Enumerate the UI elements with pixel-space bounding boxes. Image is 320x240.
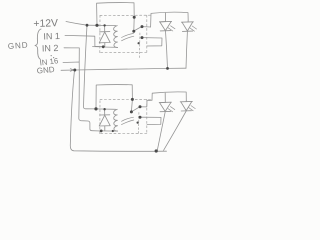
wire NO contact 2 out [140,100,152,107]
relay K1 NC contact stub [142,38,162,46]
wire coil 1 bottom to junction [103,46,118,48]
LED D6 symbol [180,101,195,111]
junction bypass 2 [94,107,97,110]
relay K1 dashed enclosure [100,15,152,52]
wire coil 2 bottom to junction [101,130,118,132]
relay K1 actuator dashed link [139,33,141,58]
wire +12V to rail [66,22,87,26]
svg-text:GND: GND [8,41,29,51]
diode D1 (flyback) [99,25,110,46]
svg-text:IN 1: IN 1 [43,31,60,42]
junction LED D2 lead on GND rail [166,67,169,70]
wire +12V rail into relay box 1 [87,24,116,26]
node GND label (far left) [8,41,29,51]
dots of ellipsis between IN2 and IN16 [51,55,52,56]
junction GND arrow dot [73,69,76,72]
wire NO contact 1 out [142,26,151,28]
junction +12V split [86,24,89,27]
junction pole 2 [130,110,133,113]
wire IN16 to coil 2 bottom [63,62,101,131]
junction coil 2 bottom left [100,130,103,133]
relay K1 linkage squiggle [122,33,134,37]
node IN2 label [42,43,59,54]
relay K2 contact arm (pole to NO) [131,107,140,112]
LED D3 symbol [181,21,196,32]
LED D5 symbol [159,93,175,112]
wire +12V rail into relay box 2 [96,108,116,110]
wire LED D6 down to bottom rail [164,111,187,150]
junction bottom rail [155,149,158,152]
brace grouping inputs [35,29,41,60]
wire LED D5 down to bottom rail [157,112,165,151]
LED D2 symbol [159,13,175,31]
junction feed on box 1 edge [133,16,136,19]
junction coil 1 bottom [102,45,105,48]
junction dots [51,16,169,153]
relay K2 linkage squiggle [122,117,134,121]
node +12V label [33,18,58,30]
diode D4 (flyback) [99,109,110,131]
wire GND down left side to bottom rail [70,70,166,151]
junction bypass 1 [95,24,98,27]
wire GND rail to upper diode pair [75,68,187,70]
wire contact feed down to pole 2 [131,99,132,111]
junction NO contact 2 [139,105,142,108]
wire overshoot at junction 1 [93,46,104,48]
wire GND to collector rail [61,69,75,71]
wire +12V drop to block 2 [84,25,97,109]
wire LED D3 down to GND rail [186,32,187,69]
relay K2 actuator dashed link [138,113,140,135]
wire IN1 to coil 1 bottom [65,35,103,46]
node IN16 label [39,56,59,67]
wire bypass over box 2 to contact feed [96,85,132,109]
relay K2 NC contact stub [140,117,161,124]
coil L2 (relay coil) [114,109,118,131]
relay K1 contact arm (pole to NO) [134,26,142,31]
coil L1 (relay coil) [114,26,118,48]
wire contact 2 up-and-over to diodes [152,92,186,101]
wire contact 1 up-and-over to diodes [151,12,189,27]
junction NC contact 1 [141,36,144,39]
wire bypass over box 1 to contact feed [97,3,135,26]
junction coil 2 bottom mid [112,130,114,132]
node IN1 label [43,31,60,42]
arrowhead on GND wire [70,69,74,72]
junction diode 2 top [103,108,105,110]
junction diode 1 top [103,24,105,26]
node GND label (input side) [36,65,55,76]
junction small lower pivot 2 [137,122,139,124]
junction NO contact 1 [141,25,144,28]
svg-text:GND: GND [36,65,55,76]
wire LED D2 down to GND rail [166,31,168,68]
relay K2 dashed enclosure [100,99,152,133]
svg-text:+12V: +12V [33,18,58,30]
junction pole 1 [132,30,135,33]
wire IN2 down [64,48,79,62]
wire contact feed down to pole 1 [133,17,135,31]
junction NC contact 2 [139,116,142,119]
svg-text:IN 2: IN 2 [42,43,59,54]
junction small lower pivot 1 [138,42,140,44]
junction feed on box 2 edge [131,98,134,101]
